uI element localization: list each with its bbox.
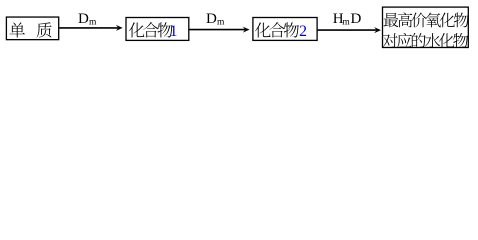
svg-text:D: D: [350, 11, 361, 27]
svg-text:1: 1: [170, 23, 178, 40]
svg-text:D: D: [78, 11, 89, 27]
box B2 (化合物1): [126, 18, 189, 41]
text 对应的水化物 (line 2): [383, 33, 398, 48]
svg-text:m: m: [217, 17, 225, 27]
text 化合物: [129, 22, 145, 37]
svg-text:2: 2: [299, 23, 307, 40]
svg-text:m: m: [342, 17, 350, 27]
box B3 (化合物2): [253, 18, 317, 41]
svg-text:m: m: [89, 17, 97, 27]
text 化合物: [255, 22, 271, 37]
text 单: [10, 22, 25, 37]
svg-text:D: D: [206, 11, 217, 27]
background: [0, 0, 478, 59]
text 质: [36, 22, 51, 37]
text 最高价氧化物 (line 1): [384, 13, 399, 27]
wire arrow A1: [59, 27, 118, 29]
box B4 (最高价氧化物对应的水化物): [383, 7, 469, 47]
wire arrow A3: [318, 29, 377, 31]
box B1 (单质): [6, 17, 58, 40]
wire arrow A2: [189, 29, 245, 31]
